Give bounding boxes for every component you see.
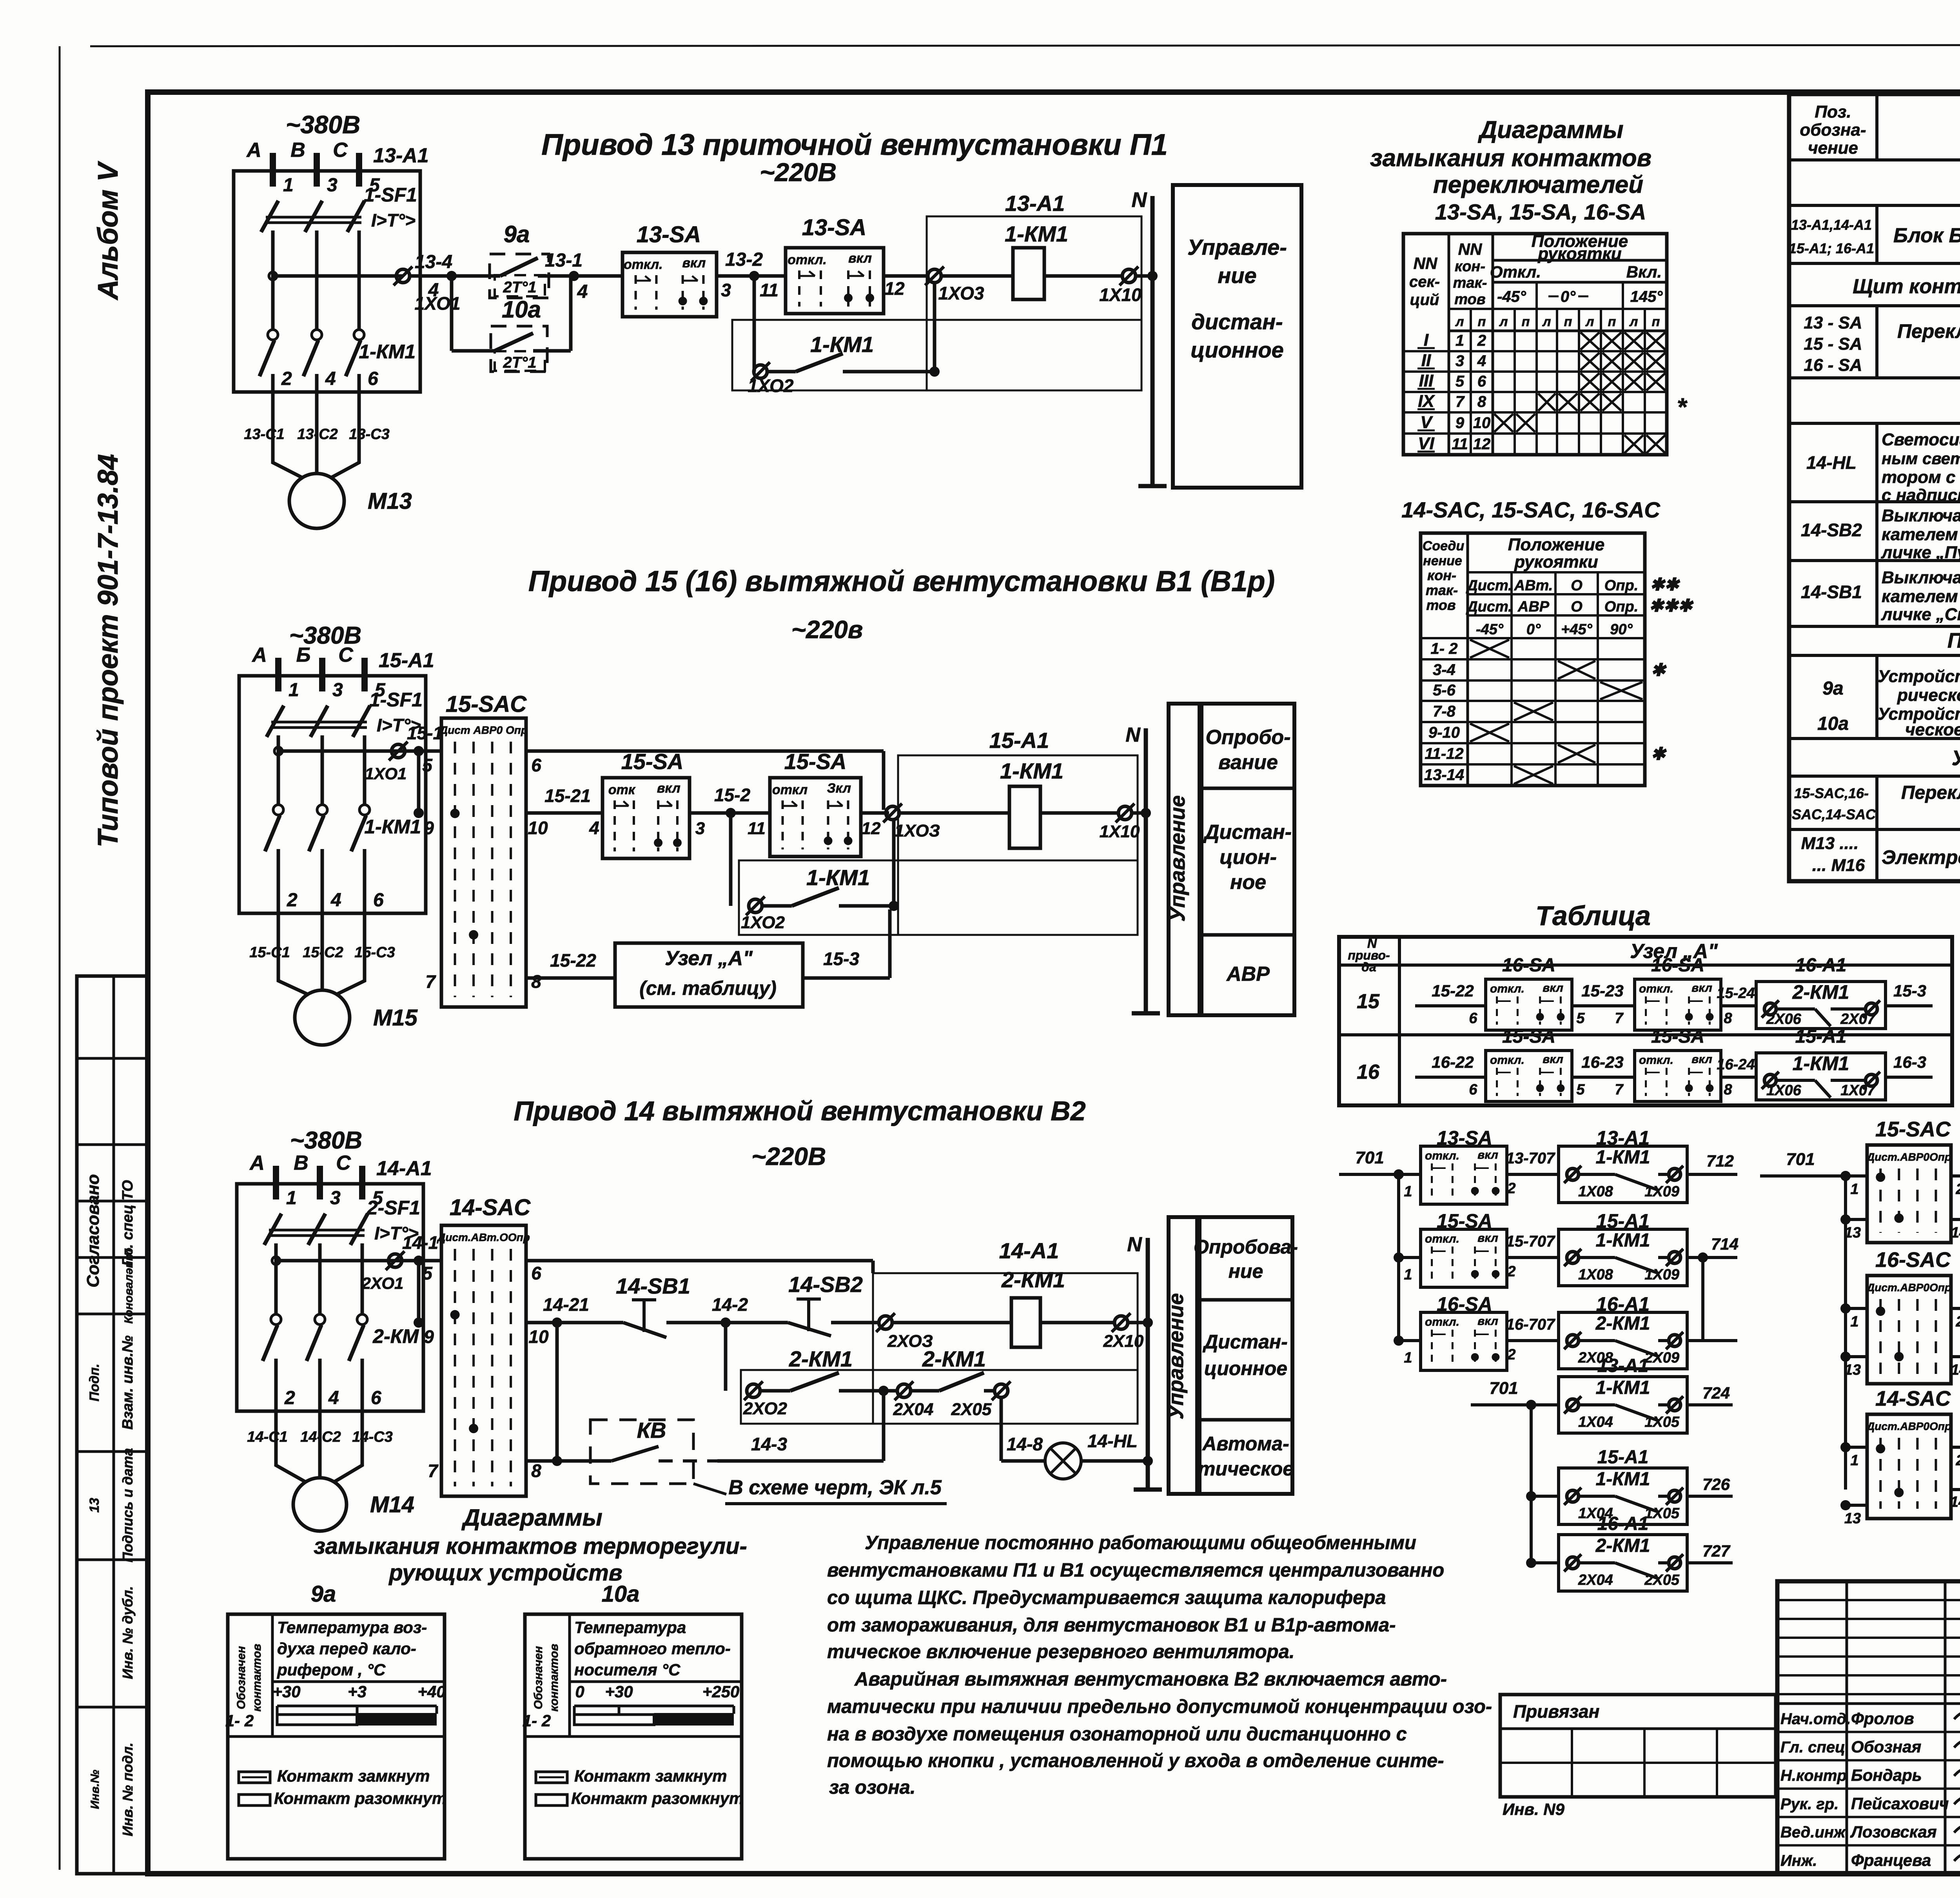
- svg-text:откл.: откл.: [1425, 1316, 1459, 1328]
- svg-text:1Х09: 1Х09: [1644, 1267, 1679, 1283]
- svg-text:Откл.: Откл.: [1490, 263, 1541, 281]
- svg-text:13 - SA: 13 - SA: [1804, 313, 1862, 332]
- svg-text:N: N: [1132, 188, 1147, 212]
- svg-text:М14: М14: [370, 1492, 414, 1517]
- svg-text:В схеме черт, ЭК л.5: В схеме черт, ЭК л.5: [728, 1476, 942, 1499]
- svg-text:за озона.: за озона.: [829, 1777, 916, 1798]
- svg-text:10а: 10а: [602, 1581, 640, 1607]
- svg-text:2-КМ1: 2-КМ1: [1595, 1313, 1650, 1334]
- svg-text:15-1: 15-1: [407, 723, 443, 743]
- svg-text:15-А1; 16-А1: 15-А1; 16-А1: [1789, 240, 1874, 256]
- svg-text:1ХО1: 1ХО1: [365, 764, 407, 783]
- svg-text:15-SA: 15-SA: [1651, 1026, 1704, 1047]
- svg-text:вкл: вкл: [657, 781, 681, 796]
- svg-text:4: 4: [328, 1388, 339, 1408]
- svg-text:рическое ТУДЭ-1: рическое ТУДЭ-1: [1897, 686, 1960, 705]
- svg-text:Переключатель ПКУ 3 -58У 40: Переключатель ПКУ 3 -58У 4096У2: [1901, 782, 1960, 803]
- svg-text:-SAC,14-SAC: -SAC,14-SAC: [1787, 806, 1876, 822]
- svg-text:1Х08: 1Х08: [1578, 1267, 1613, 1283]
- svg-text:10а: 10а: [502, 296, 541, 323]
- svg-text:С: С: [333, 139, 348, 161]
- svg-text:Контакт замкнут: Контакт замкнут: [277, 1767, 430, 1785]
- svg-text:13-С2: 13-С2: [297, 426, 338, 443]
- svg-text:14-SAC: 14-SAC: [450, 1195, 531, 1220]
- svg-text:12: 12: [1473, 435, 1491, 453]
- svg-text:рукоятки: рукоятки: [1514, 552, 1598, 572]
- svg-text:14-3: 14-3: [751, 1434, 787, 1454]
- svg-text:Гл. спец: Гл. спец: [1780, 1739, 1845, 1756]
- svg-text:8: 8: [531, 1461, 541, 1481]
- svg-text:1-КМ1: 1-КМ1: [810, 332, 874, 357]
- svg-text:NN: NN: [1458, 240, 1483, 258]
- svg-text:Контакт разомкнут: Контакт разомкнут: [571, 1789, 744, 1807]
- svg-text:V: V: [1420, 413, 1433, 432]
- svg-text:2Т°1: 2Т°1: [503, 279, 537, 296]
- svg-text:2: 2: [1955, 1314, 1960, 1330]
- svg-text:3: 3: [330, 1188, 341, 1208]
- svg-text:+45°: +45°: [1561, 621, 1592, 638]
- svg-text:14-21: 14-21: [543, 1294, 589, 1315]
- svg-text:13-А1: 13-А1: [1005, 191, 1065, 216]
- svg-text:5: 5: [1455, 373, 1465, 390]
- svg-text:1-КМ1: 1-КМ1: [1596, 1469, 1650, 1490]
- svg-text:Узел „А": Узел „А": [665, 947, 753, 970]
- svg-text:Дист.: Дист.: [1466, 577, 1512, 594]
- svg-text:л: л: [1585, 314, 1594, 329]
- svg-text:II: II: [1421, 351, 1431, 370]
- svg-text:15-А1: 15-А1: [379, 649, 434, 672]
- svg-text:3: 3: [332, 680, 343, 700]
- svg-text:Инв.№: Инв.№: [89, 1770, 102, 1809]
- svg-text:8: 8: [1477, 393, 1486, 410]
- svg-text:Пейсахович: Пейсахович: [1851, 1794, 1949, 1813]
- svg-text:1: 1: [1850, 1181, 1858, 1198]
- svg-text:Бондарь: Бондарь: [1851, 1766, 1922, 1784]
- svg-text:726: 726: [1702, 1475, 1730, 1493]
- svg-text:*: *: [1677, 393, 1688, 421]
- svg-text:Подпись и дата: Подпись и дата: [120, 1448, 136, 1562]
- svg-text:1- 2: 1- 2: [1431, 640, 1458, 657]
- svg-text:12: 12: [862, 819, 881, 838]
- svg-text:13-2: 13-2: [725, 249, 763, 270]
- svg-text:Взам. инв.№: Взам. инв.№: [120, 1335, 136, 1430]
- svg-text:откл.: откл.: [1639, 982, 1673, 995]
- svg-text:7: 7: [1455, 393, 1465, 410]
- svg-text:15-SA: 15-SA: [1502, 1026, 1555, 1047]
- svg-text:дистан-: дистан-: [1191, 309, 1283, 334]
- svg-text:Типовой проект 901-7-13.84: Типовой проект 901-7-13.84: [93, 454, 124, 847]
- svg-text:0°: 0°: [1526, 621, 1541, 638]
- svg-text:5: 5: [422, 755, 433, 775]
- svg-text:откл.: откл.: [1490, 982, 1524, 995]
- svg-text:1ХО3: 1ХО3: [938, 283, 984, 303]
- svg-text:1-КМ1: 1-КМ1: [1793, 1052, 1849, 1074]
- svg-text:15-21: 15-21: [544, 786, 591, 806]
- svg-text:145°: 145°: [1630, 288, 1663, 305]
- svg-text:2-КМ1: 2-КМ1: [1792, 981, 1849, 1003]
- svg-text:М15: М15: [373, 1005, 418, 1031]
- svg-text:✱: ✱: [1651, 660, 1667, 680]
- svg-text:О: О: [1571, 599, 1583, 615]
- svg-text:6: 6: [531, 755, 541, 775]
- svg-text:2ХО2: 2ХО2: [743, 1399, 787, 1418]
- svg-text:Опробо-: Опробо-: [1205, 726, 1290, 749]
- svg-text:ным светофильтром и пристроенн: ным светофильтром и пристроенным трансфо…: [1882, 449, 1960, 468]
- svg-text:вкл: вкл: [1477, 1315, 1498, 1328]
- svg-text:5-6: 5-6: [1433, 682, 1456, 699]
- svg-text:Дист.АВР0Опр: Дист.АВР0Опр: [1866, 1281, 1951, 1294]
- svg-text:2Х05: 2Х05: [1644, 1572, 1680, 1588]
- svg-text:Лозовская: Лозовская: [1850, 1823, 1937, 1841]
- svg-text:10а: 10а: [1817, 713, 1849, 734]
- svg-text:2Х06: 2Х06: [1766, 1011, 1802, 1027]
- svg-text:личке „Пуск": личке „Пуск": [1881, 543, 1960, 562]
- svg-text:вкл: вкл: [1477, 1232, 1498, 1245]
- svg-text:9а: 9а: [311, 1581, 336, 1607]
- svg-text:90°: 90°: [1610, 621, 1633, 638]
- svg-text:-45°: -45°: [1497, 288, 1526, 305]
- svg-text:7: 7: [425, 971, 436, 992]
- svg-text:16: 16: [1357, 1061, 1380, 1083]
- svg-text:7: 7: [1615, 1081, 1624, 1098]
- svg-text:Привод 14 вытяжной вентустанов: Привод 14 вытяжной вентустановки В2: [514, 1096, 1085, 1126]
- svg-text:2-КМ1: 2-КМ1: [1001, 1267, 1065, 1292]
- svg-text:16-3: 16-3: [1893, 1053, 1926, 1071]
- svg-text:О: О: [1571, 577, 1583, 594]
- svg-text:1-КМ1: 1-КМ1: [1596, 1230, 1650, 1251]
- svg-text:Положение: Положение: [1508, 535, 1604, 554]
- svg-text:✱✱✱: ✱✱✱: [1649, 596, 1694, 615]
- svg-text:(см. таблицу): (см. таблицу): [639, 977, 777, 999]
- svg-text:13-707: 13-707: [1506, 1150, 1555, 1167]
- svg-text:Б: Б: [296, 644, 311, 666]
- svg-text:4: 4: [330, 890, 341, 911]
- svg-text:16-А1: 16-А1: [1795, 955, 1847, 976]
- svg-text:VI: VI: [1418, 434, 1434, 453]
- svg-text:Нач.отд.: Нач.отд.: [1780, 1710, 1851, 1727]
- svg-text:4: 4: [325, 368, 336, 389]
- svg-text:п: п: [1564, 314, 1572, 329]
- svg-text:кон-: кон-: [1455, 258, 1485, 275]
- svg-text:1-КМ1: 1-КМ1: [806, 865, 870, 890]
- svg-text:14-А1: 14-А1: [376, 1157, 432, 1180]
- svg-text:14-SAC, 15-SAC, 16-SAC: 14-SAC, 15-SAC, 16-SAC: [1401, 497, 1661, 522]
- svg-text:2: 2: [1955, 1181, 1960, 1198]
- svg-text:I>T°>: I>T°>: [371, 210, 416, 230]
- svg-text:замыкания контактов терморег: замыкания контактов терморегули-: [314, 1533, 747, 1559]
- svg-text:обратного тепло-: обратного тепло-: [574, 1639, 731, 1658]
- svg-text:5: 5: [1576, 1010, 1585, 1027]
- svg-text:КВ: КВ: [637, 1418, 666, 1443]
- svg-text:Зкл: Зкл: [827, 781, 851, 796]
- svg-text:Опробова-: Опробова-: [1194, 1236, 1298, 1258]
- svg-text:9: 9: [1455, 414, 1465, 432]
- svg-text:Инж.: Инж.: [1780, 1852, 1817, 1869]
- svg-text:2: 2: [281, 368, 292, 389]
- svg-text:14: 14: [1951, 1362, 1960, 1378]
- svg-text:14-HL: 14-HL: [1806, 452, 1857, 473]
- svg-text:контактов: контактов: [250, 1644, 263, 1712]
- svg-text:1: 1: [1850, 1314, 1858, 1330]
- svg-text:2: 2: [287, 890, 298, 911]
- svg-text:тическое включение резервног: тическое включение резервного вентилятор…: [827, 1641, 1294, 1662]
- svg-text:Соеди: Соеди: [1423, 539, 1465, 553]
- svg-text:0: 0: [575, 1682, 584, 1701]
- svg-text:... М16: ... М16: [1812, 856, 1865, 875]
- svg-text:1: 1: [1850, 1452, 1858, 1469]
- svg-text:2: 2: [1507, 1263, 1515, 1280]
- svg-text:вентустановками П1 и В1 осущ: вентустановками П1 и В1 осуществляется ц…: [827, 1560, 1444, 1581]
- svg-text:8: 8: [531, 971, 541, 992]
- svg-text:Инв. № подл.: Инв. № подл.: [120, 1742, 136, 1836]
- svg-text:1-КМ1: 1-КМ1: [359, 341, 416, 363]
- svg-text:1Х05: 1Х05: [1644, 1414, 1680, 1430]
- svg-text:15-С2: 15-С2: [303, 944, 343, 961]
- svg-text:15-22: 15-22: [1432, 982, 1474, 1000]
- svg-text:Температура: Температура: [574, 1618, 686, 1637]
- svg-text:откл.: откл.: [1425, 1232, 1459, 1245]
- svg-text:Опр.: Опр.: [1604, 577, 1639, 594]
- svg-text:1Х10: 1Х10: [1100, 822, 1140, 841]
- svg-text:В: В: [290, 139, 305, 161]
- svg-text:вкл: вкл: [1477, 1149, 1498, 1161]
- svg-text:6: 6: [1469, 1010, 1477, 1027]
- svg-text:п: п: [1522, 314, 1530, 329]
- svg-text:В: В: [294, 1152, 309, 1174]
- svg-text:АВР: АВР: [1226, 963, 1270, 985]
- svg-text:2Х04: 2Х04: [893, 1400, 934, 1419]
- svg-text:Устройство терморегулирующее д: Устройство терморегулирующее дилатомет-: [1878, 667, 1960, 686]
- svg-text:15-23: 15-23: [1581, 982, 1623, 1000]
- svg-text:ное: ное: [1230, 871, 1266, 894]
- svg-text:так-: так-: [1426, 582, 1458, 598]
- svg-text:16-24: 16-24: [1717, 1056, 1755, 1073]
- svg-text:2-КМ1: 2-КМ1: [922, 1346, 986, 1371]
- svg-text:нение: нение: [1423, 553, 1462, 568]
- svg-text:6: 6: [373, 890, 384, 911]
- svg-text:16 - SA: 16 - SA: [1804, 356, 1862, 375]
- svg-text:13: 13: [1844, 1362, 1861, 1378]
- svg-text:15-А1: 15-А1: [1795, 1026, 1847, 1047]
- svg-text:15-SA: 15-SA: [784, 749, 847, 774]
- svg-text:6: 6: [371, 1388, 381, 1408]
- svg-text:2Х04: 2Х04: [1578, 1572, 1613, 1588]
- svg-text:тов: тов: [1426, 597, 1455, 613]
- svg-text:1ХО1: 1ХО1: [414, 293, 460, 314]
- svg-text:3-4: 3-4: [1433, 661, 1455, 679]
- svg-text:от замораживания, для венту: от замораживания, для вентустановок В1 и…: [827, 1615, 1396, 1636]
- svg-text:9: 9: [424, 818, 434, 838]
- svg-text:3: 3: [721, 280, 731, 300]
- svg-text:1-КМ1: 1-КМ1: [1596, 1377, 1650, 1398]
- svg-text:1-SF1: 1-SF1: [369, 689, 423, 711]
- svg-text:тов: тов: [1454, 291, 1485, 308]
- svg-text:Переключатель УП5313-А19 УЗ: Переключатель УП5313-А19 УЗ: [1897, 320, 1960, 342]
- svg-text:+30: +30: [605, 1682, 633, 1701]
- svg-text:1ХО2: 1ХО2: [741, 913, 785, 932]
- svg-text:11: 11: [748, 819, 766, 838]
- svg-text:1Х09: 1Х09: [1644, 1183, 1679, 1200]
- svg-text:Согласовано: Согласовано: [83, 1174, 103, 1287]
- svg-text:15-А1: 15-А1: [989, 728, 1049, 753]
- svg-text:I: I: [1424, 330, 1429, 350]
- svg-text:14-8: 14-8: [1007, 1434, 1043, 1454]
- svg-text:Опр.: Опр.: [1604, 599, 1639, 615]
- svg-text:Инв. № дубл.: Инв. № дубл.: [120, 1586, 136, 1679]
- svg-text:вкл: вкл: [1543, 1053, 1563, 1066]
- svg-text:на в воздухе помещения озон: на в воздухе помещения озонаторной или д…: [827, 1724, 1407, 1745]
- svg-text:со щита ЩКС. Предусматривает: со щита ЩКС. Предусматривается защита ка…: [827, 1587, 1386, 1608]
- svg-text:2ХО1: 2ХО1: [361, 1274, 404, 1292]
- svg-text:1: 1: [1404, 1183, 1412, 1200]
- svg-text:2: 2: [1507, 1180, 1515, 1197]
- svg-text:вкл: вкл: [682, 256, 706, 270]
- svg-text:Диаграммы: Диаграммы: [461, 1504, 602, 1531]
- svg-text:с надписью на табличке „Вентил: с надписью на табличке „Вентилятор В2": [1882, 486, 1960, 505]
- svg-text:6: 6: [368, 368, 378, 389]
- svg-text:701: 701: [1786, 1150, 1815, 1169]
- svg-text:да: да: [1361, 960, 1376, 974]
- svg-text:14-1: 14-1: [402, 1232, 438, 1253]
- svg-text:2: 2: [284, 1388, 295, 1408]
- svg-text:1-SF1: 1-SF1: [364, 184, 417, 206]
- svg-text:14-SB1: 14-SB1: [1801, 582, 1862, 602]
- svg-text:15-3: 15-3: [823, 949, 859, 969]
- svg-text:Аварийная вытяжная вентустан: Аварийная вытяжная вентустановка В2 вклю…: [854, 1669, 1447, 1690]
- svg-text:Альбом V: Альбом V: [93, 160, 124, 300]
- svg-text:Подп.: Подп.: [87, 1364, 102, 1401]
- svg-text:Фролов: Фролов: [1851, 1709, 1914, 1727]
- svg-text:л: л: [1455, 314, 1464, 329]
- svg-text:Дист АВР0 Опр: Дист АВР0 Опр: [439, 724, 528, 736]
- svg-text:14-С1: 14-С1: [247, 1429, 288, 1445]
- svg-text:7: 7: [1615, 1010, 1624, 1027]
- svg-text:11: 11: [1452, 435, 1468, 453]
- svg-text:13-SA: 13-SA: [802, 215, 866, 240]
- svg-text:АВР: АВР: [1517, 599, 1550, 615]
- svg-text:кателем черного цвета с надпи: кателем черного цвета с надписью на таб-: [1882, 525, 1960, 544]
- svg-text:9: 9: [424, 1326, 434, 1347]
- svg-text:1ХО2: 1ХО2: [748, 376, 793, 396]
- svg-text:15-22: 15-22: [550, 950, 596, 971]
- svg-text:2: 2: [1477, 332, 1486, 349]
- svg-text:13-С1: 13-С1: [244, 426, 285, 443]
- svg-text:13: 13: [87, 1498, 102, 1513]
- svg-text:~220в: ~220в: [791, 615, 863, 644]
- svg-text:У механизма: У механизма: [1952, 746, 1960, 770]
- svg-text:контактов: контактов: [548, 1644, 561, 1712]
- svg-text:13-1: 13-1: [545, 250, 583, 271]
- svg-text:4: 4: [589, 818, 599, 838]
- svg-text:2: 2: [1955, 1452, 1960, 1469]
- svg-text:Обозная: Обозная: [1851, 1738, 1921, 1756]
- svg-text:ционное: ционное: [1191, 338, 1284, 362]
- svg-text:п: п: [1652, 314, 1660, 329]
- svg-text:~380В: ~380В: [286, 111, 360, 139]
- svg-text:л: л: [1499, 314, 1508, 329]
- svg-text:2-КМ1: 2-КМ1: [1595, 1535, 1650, 1556]
- svg-text:13-4: 13-4: [415, 252, 452, 272]
- svg-text:Инв. N9: Инв. N9: [1503, 1800, 1565, 1818]
- svg-text:АВт.: АВт.: [1514, 577, 1553, 594]
- svg-text:Н.контр: Н.контр: [1780, 1767, 1847, 1784]
- svg-text:С: С: [336, 1152, 351, 1174]
- svg-text:+30: +30: [272, 1682, 300, 1701]
- svg-text:13-SA, 15-SA, 16-SA: 13-SA, 15-SA, 16-SA: [1435, 200, 1646, 224]
- svg-text:носителя °С: носителя °С: [574, 1660, 681, 1679]
- svg-text:+250: +250: [702, 1682, 740, 1701]
- svg-text:13-С3: 13-С3: [349, 426, 390, 443]
- svg-text:13-SA: 13-SA: [637, 222, 701, 247]
- svg-text:откл.: откл.: [624, 257, 663, 272]
- svg-text:тическое: тическое: [1198, 1458, 1294, 1480]
- svg-text:14: 14: [1951, 1225, 1960, 1241]
- svg-text:откл.: откл.: [788, 252, 827, 267]
- svg-text:Температура воз-: Температура воз-: [277, 1618, 427, 1637]
- svg-text:15-SAC: 15-SAC: [446, 691, 527, 717]
- svg-text:личке „Стоп": личке „Стоп": [1881, 605, 1960, 624]
- svg-text:-45°: -45°: [1476, 621, 1504, 638]
- svg-text:рующих устройств: рующих устройств: [388, 1560, 622, 1586]
- svg-text:Контакт замкнут: Контакт замкнут: [574, 1767, 727, 1785]
- svg-text:2Х09: 2Х09: [1644, 1350, 1679, 1366]
- svg-text:п: п: [1608, 314, 1616, 329]
- svg-text:N: N: [1127, 1233, 1142, 1256]
- svg-text:+3: +3: [348, 1682, 367, 1701]
- svg-text:14-А1: 14-А1: [999, 1238, 1059, 1263]
- svg-text:Дистан-: Дистан-: [1203, 821, 1292, 844]
- svg-text:8: 8: [1724, 1081, 1732, 1098]
- svg-text:Светосигнальная арматура серии: Светосигнальная арматура серии АЕ с крас…: [1882, 430, 1960, 449]
- svg-text:Дист.АВР0Опр: Дист.АВР0Опр: [1866, 1151, 1951, 1163]
- svg-text:1Х07: 1Х07: [1840, 1082, 1876, 1099]
- svg-text:Дист.АВР0Опр: Дист.АВР0Опр: [1866, 1420, 1951, 1432]
- svg-text:14-SB2: 14-SB2: [788, 1272, 863, 1297]
- svg-text:16-23: 16-23: [1581, 1053, 1623, 1071]
- svg-text:16-SAC: 16-SAC: [1875, 1248, 1951, 1272]
- svg-text:замыкания контактов: замыкания контактов: [1370, 145, 1651, 172]
- svg-text:Электродвигатель 4А100LВ6 УЗ: Электродвигатель 4А100LВ6 УЗ: [1882, 846, 1960, 868]
- svg-text:2Х07: 2Х07: [1840, 1011, 1876, 1027]
- svg-text:13-А1: 13-А1: [1597, 1355, 1649, 1376]
- svg-text:701: 701: [1355, 1148, 1384, 1167]
- svg-text:Выключатель кнопочный КЕ 011: Выключатель кнопочный КЕ 011 исп. 5 с то…: [1882, 568, 1960, 587]
- svg-text:1: 1: [289, 680, 299, 700]
- svg-text:1Х08: 1Х08: [1578, 1183, 1613, 1200]
- svg-text:откл.: откл.: [1425, 1149, 1459, 1162]
- svg-text:3: 3: [1455, 352, 1464, 370]
- svg-text:13-А1: 13-А1: [373, 144, 429, 167]
- svg-text:11-12: 11-12: [1425, 745, 1463, 762]
- svg-text:1-КМ1: 1-КМ1: [364, 816, 421, 838]
- svg-text:13-А1,14-А1: 13-А1,14-А1: [1791, 217, 1872, 233]
- svg-text:рифером , °С: рифером , °С: [277, 1660, 386, 1679]
- svg-text:п: п: [1478, 314, 1486, 329]
- svg-text:Управление постоянно работаю: Управление постоянно работающими общеобм…: [865, 1532, 1416, 1553]
- svg-text:15-С1: 15-С1: [249, 944, 290, 961]
- svg-text:А: А: [249, 1152, 265, 1174]
- svg-text:15-2: 15-2: [714, 785, 750, 805]
- svg-text:712: 712: [1706, 1152, 1734, 1170]
- svg-text:вкл: вкл: [1691, 982, 1712, 994]
- svg-text:2Х10: 2Х10: [1103, 1332, 1144, 1351]
- svg-text:л: л: [1629, 314, 1638, 329]
- svg-text:9а: 9а: [504, 221, 530, 247]
- svg-text:15-А1: 15-А1: [1597, 1447, 1649, 1468]
- svg-text:Дист.: Дист.: [1466, 599, 1512, 615]
- svg-text:вкл: вкл: [848, 251, 872, 266]
- svg-text:Выключатель кнопочный КЕ 011: Выключатель кнопочный КЕ 011 исп. 4 с то…: [1882, 506, 1960, 525]
